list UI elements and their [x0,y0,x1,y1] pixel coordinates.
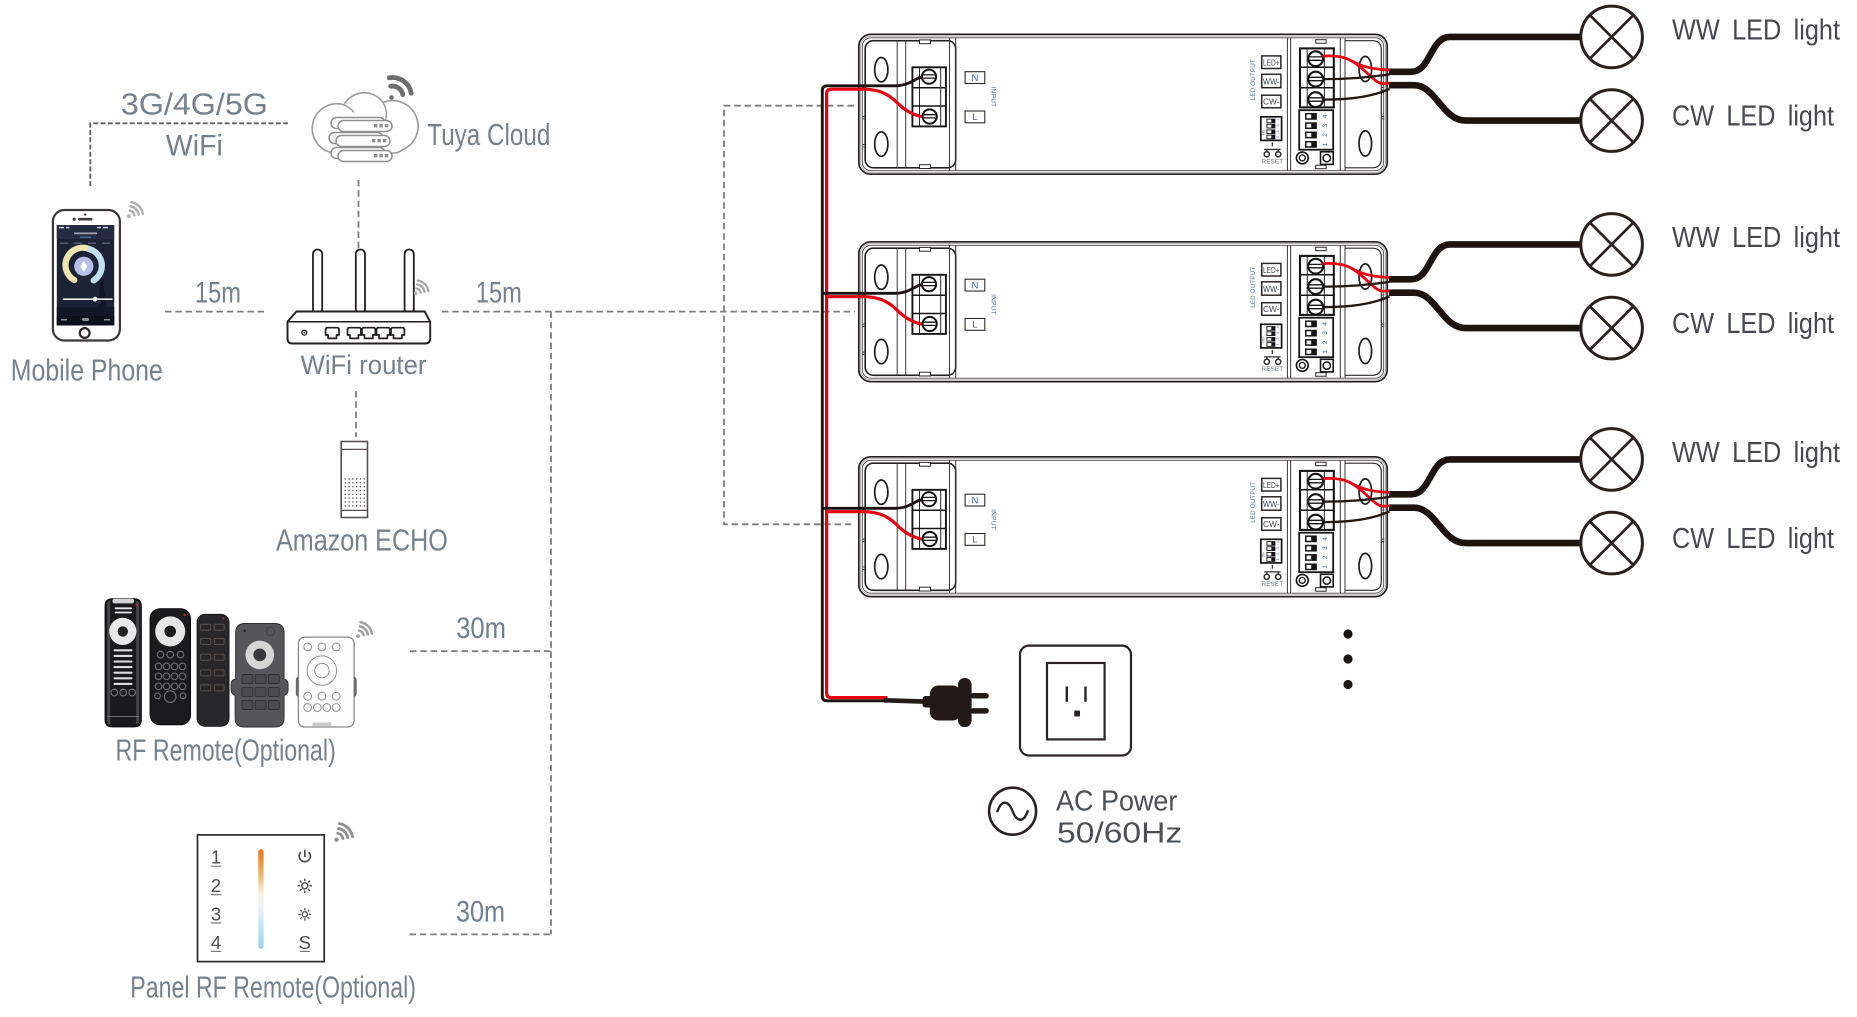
svg-text:30m: 30m [456,895,505,928]
dashed link RF remote 30m [410,650,551,652]
phone screen [57,225,114,326]
svg-text:1: 1 [211,847,221,868]
remote 3 pushbutton slim [197,614,229,726]
AC plug [930,686,961,721]
phone wifi signal [127,202,143,218]
ellipsis dots for more controllers [1343,629,1352,638]
svg-text:Mobile Phone: Mobile Phone [11,353,163,388]
router antennas [313,250,414,314]
svg-text:RF Remote(Optional): RF Remote(Optional) [116,733,336,768]
phone speaker [79,218,91,221]
svg-text:15m: 15m [476,276,522,309]
wall outlet [1020,646,1131,756]
svg-text:15m: 15m [195,276,241,309]
svg-text:AC Power: AC Power [1056,785,1178,817]
panel brightness up icon [298,879,312,893]
cloud junction arcs [344,103,386,120]
dashed link phone to cloud [90,123,288,188]
dashed link phone to router 15m [165,311,264,313]
svg-text:50/60Hz: 50/60Hz [1057,817,1182,849]
dashed distribution riser [724,106,854,525]
red branch to controller 3 [827,512,922,540]
panel zone digits [211,847,221,953]
black mains trunk wire [822,77,922,701]
router body [288,312,431,344]
router led [302,330,307,335]
svg-text:3G/4G/5G: 3G/4G/5G [121,87,268,122]
AC power symbol [989,788,1036,835]
dashed link panel remote 30m [410,933,552,935]
phone body [53,210,120,341]
router wifi signal [414,281,429,296]
dashed link cloud to router [358,180,360,249]
svg-text:30m: 30m [456,612,506,645]
panel power icon [299,850,310,862]
svg-text:WiFi: WiFi [166,129,223,162]
svg-text:Amazon ECHO: Amazon ECHO [276,522,448,557]
svg-text:Panel RF Remote(Optional): Panel RF Remote(Optional) [130,970,416,1005]
panel brightness down icon [299,908,312,921]
dashed trunk to remotes [550,312,552,935]
red branch to controller 2 [827,297,922,325]
panel wifi signal [334,824,352,842]
panel CT gradient slider [258,849,263,949]
svg-text:Tuya Cloud: Tuya Cloud [427,117,550,152]
svg-text:3: 3 [211,903,221,924]
red mains trunk wire [827,89,922,697]
panel frame [198,835,325,962]
remote 2 rotary black round [150,609,191,725]
cloud wifi signal [389,78,411,95]
phone slider [63,298,113,300]
svg-text:2: 2 [211,875,221,896]
echo speaker perforation dots [345,478,365,506]
remote 1 rotary black [105,599,141,727]
dashed link router to echo [355,391,357,437]
remote 5 white touch [296,637,357,727]
remote 4 rotary grey [231,624,288,728]
cloud outline [312,93,418,153]
cloud server racks [329,118,392,162]
black branch to controller 2 [822,285,922,294]
phone color wheel [65,248,90,280]
svg-text:S: S [299,932,311,953]
phone home button [80,328,90,338]
svg-text:WiFi router: WiFi router [301,350,427,380]
dashed link router to controllers 15m [442,311,855,313]
black branch to controller 3 [822,500,922,509]
plug cord [884,700,924,701]
RF remote wifi signal [356,622,372,638]
svg-text:4: 4 [211,932,221,953]
router ports [326,328,405,339]
